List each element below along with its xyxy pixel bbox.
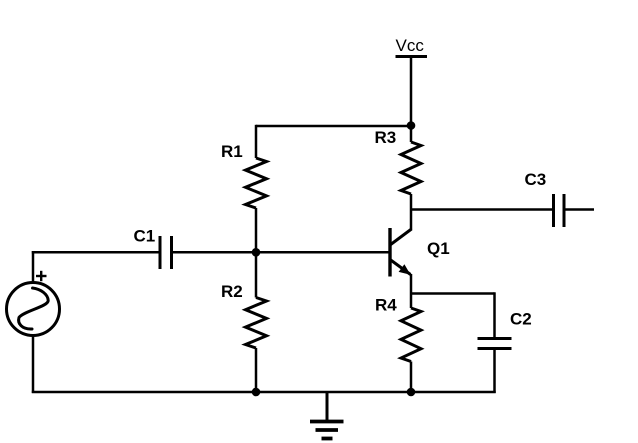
wire: signal line from source to C1 [32, 251, 160, 254]
base bar [388, 228, 391, 277]
wire: R2 top lead [255, 252, 258, 298]
wire: C1 to base node to transistor base [172, 251, 391, 254]
wire: R3 bottom lead / collector line [410, 194, 413, 230]
transistor Q1 [390, 228, 412, 277]
wire: C2 top lead [493, 292, 496, 339]
wire: R4 bottom lead [410, 362, 413, 393]
wire: R1 top lead [255, 125, 258, 158]
svg-text:R1: R1 [221, 142, 243, 161]
svg-text:Vcc: Vcc [396, 36, 425, 55]
svg-text:Q1: Q1 [427, 239, 450, 258]
svg-text:R4: R4 [375, 296, 397, 315]
wire: AC source bottom lead [32, 336, 35, 394]
resistor R2 [246, 298, 267, 349]
collector diagonal [390, 229, 412, 245]
wire: AC source top lead up to signal line [32, 251, 35, 283]
wire: C2 bottom lead [493, 350, 496, 394]
wire: top rail from R1 to Vcc node [256, 125, 411, 128]
plus sign of AC source [36, 271, 47, 281]
wire: bottom rail [32, 391, 496, 394]
svg-text:C1: C1 [134, 227, 156, 246]
capacitor C3 [554, 194, 565, 227]
resistor R4 [401, 308, 421, 362]
wire: output line from collector to C3 [411, 208, 554, 211]
wire: emitter lead down [410, 274, 413, 308]
node: base divider junction [252, 248, 261, 257]
wire: output stub right of C3 [564, 208, 594, 211]
wire: R2 bottom lead [255, 348, 258, 392]
capacitor C1 [160, 236, 172, 269]
wire: R1 bottom lead [255, 208, 258, 252]
node: emitter / bottom rail junction [407, 388, 416, 397]
emitter diagonal [390, 260, 411, 275]
resistor R1 [246, 158, 267, 208]
emitter arrowhead [399, 264, 411, 275]
svg-text:C3: C3 [525, 170, 547, 189]
ground [310, 392, 344, 439]
node: R2 / bottom rail junction [252, 388, 261, 397]
node: Vcc / R3 / top rail junction [407, 121, 416, 130]
capacitor C2 [478, 339, 512, 349]
resistor R3 [401, 142, 421, 194]
AC source V1 [7, 283, 60, 336]
svg-text:R3: R3 [375, 128, 397, 147]
wire: emitter tap to C2 [411, 292, 495, 295]
wire: R3 top lead [410, 126, 413, 142]
svg-text:R2: R2 [221, 282, 243, 301]
svg-text:C2: C2 [510, 310, 532, 329]
power Vcc [396, 57, 428, 127]
